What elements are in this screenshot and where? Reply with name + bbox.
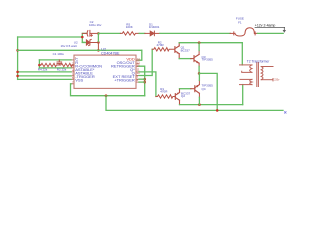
wire bottom feed up to transformer	[242, 85, 244, 105]
wire right cap rail vertical	[97, 33, 99, 42]
wire Q1 emitter to Q3 base	[179, 58, 191, 60]
wire VDD feed horizontal y50.3	[18, 49, 142, 51]
diode D1 1N4001	[145, 31, 160, 36]
svg-text:CD4047BE: CD4047BE	[101, 52, 120, 56]
node pin8 dot	[143, 81, 146, 84]
wire VDD feed down to pin14	[137, 50, 142, 60]
capacitor C2	[82, 30, 98, 36]
svg-text:470R: 470R	[157, 43, 165, 47]
transistor Q2 BC337	[175, 89, 179, 105]
secondary bottom lead	[261, 79, 273, 81]
svg-text:470R: 470R	[160, 90, 168, 94]
wire emitters to ground drop	[199, 73, 217, 110]
transistor Q3 TIP3055	[191, 43, 199, 74]
node B dot	[97, 32, 100, 35]
port 0v marker	[285, 112, 287, 114]
capacitor C1	[57, 60, 62, 65]
IC right pin leads	[136, 60, 139, 82]
wire pin8 +TRIGGER	[139, 81, 145, 83]
wire Q2 emitter to Q4 base	[180, 88, 191, 90]
node Q3 collector dot	[198, 41, 201, 44]
resistor R2 22k	[58, 63, 74, 66]
svg-text:C1 100u: C1 100u	[53, 52, 65, 56]
resistor R5 100K	[120, 32, 139, 35]
primary bottom lead	[240, 84, 253, 86]
resistor R1 470R lower	[156, 95, 175, 98]
wire diode to fuse	[160, 32, 230, 34]
node A dot	[81, 36, 84, 39]
wire between resistor and diode	[139, 32, 145, 34]
svg-text:VSS: VSS	[75, 78, 83, 83]
svg-text:Q4: Q4	[202, 87, 206, 91]
svg-text:230v: 230v	[274, 78, 280, 81]
wire left rail vertical	[17, 37, 19, 79]
svg-text:F1: F1	[238, 20, 242, 24]
wire pin4 ASTABLE* horizontal	[18, 71, 71, 73]
node pin9 dot	[143, 78, 146, 81]
wire ground drop x106	[106, 96, 283, 111]
transformer T2	[240, 63, 274, 87]
wire fuse to +12v port	[258, 32, 284, 34]
IC right pin labels	[111, 57, 135, 83]
wire pin3 R-C/COMMON horizontal	[39, 67, 71, 69]
svg-text:100u 16v: 100u 16v	[89, 23, 102, 27]
IC right pin numbers	[137, 57, 141, 82]
svg-text:1N4001: 1N4001	[149, 25, 160, 29]
node rail pin4 dot	[16, 71, 19, 74]
wire pin11 Q* to lower driver	[139, 72, 156, 97]
wire pin9 EXT RESET	[139, 78, 145, 80]
secondary winding	[261, 67, 263, 80]
svg-text:BC337: BC337	[181, 48, 191, 52]
IC left pin leads	[71, 60, 74, 84]
wire pin5 ASTABLE horizontal	[18, 75, 71, 77]
svg-text:+TRIGGER: +TRIGGER	[114, 78, 135, 83]
node emitters dot	[198, 72, 201, 75]
zener diode D2	[82, 39, 98, 45]
secondary top lead	[261, 66, 273, 68]
wire pin6 -TRIGGER horizontal	[18, 78, 71, 80]
node below IC dot	[105, 94, 108, 97]
svg-text:Q2: Q2	[181, 94, 185, 98]
wire cap branch up	[82, 33, 86, 37]
transistor Q1 BC337	[175, 43, 179, 59]
resistor R2 470R upper	[152, 48, 175, 51]
wire top-left horizontal to cap node	[18, 36, 83, 38]
svg-text:R2 22k: R2 22k	[57, 68, 67, 72]
wire Q1 collector top y42.3	[179, 42, 242, 44]
wire pin1 C horizontal	[39, 59, 71, 61]
svg-text:R4 22k: R4 22k	[38, 68, 48, 72]
svg-text:TIP3055: TIP3055	[202, 58, 214, 62]
svg-text:16v 0.5 watt: 16v 0.5 watt	[61, 44, 77, 48]
svg-text:T2 Transformer: T2 Transformer	[247, 60, 270, 64]
primary winding upper	[250, 65, 252, 73]
node D dot on VDD wire	[97, 49, 100, 52]
node ground dot	[216, 109, 219, 112]
primary winding lower	[250, 79, 252, 84]
wire pin10 Q to upper driver	[139, 49, 152, 75]
resistor R4 22k	[39, 63, 57, 66]
IC U2 CD4047BE box	[74, 55, 136, 88]
wire Q2 collector bottom y104.6	[180, 104, 243, 106]
primary center lead lower	[240, 78, 252, 80]
IC left pin numbers	[72, 56, 77, 85]
transistor Q4 TIP3055	[191, 73, 200, 104]
svg-text:100K: 100K	[126, 25, 133, 29]
wire pin7 VSS drop	[71, 84, 145, 96]
primary center lead upper	[242, 71, 252, 72]
wire left RC vertical	[38, 60, 40, 68]
wire zener branch down	[82, 37, 84, 42]
IC left pin labels	[75, 57, 102, 83]
node Q4 collector dot	[198, 103, 201, 106]
node rail pin5 dot	[16, 75, 19, 78]
wire main top y33.4 from node B to resistor	[98, 32, 120, 34]
node C dot	[97, 41, 100, 44]
core lines	[256, 63, 258, 87]
node rail dot on VDD wire	[16, 49, 19, 52]
wire pin12 RETRIGGER to right rail	[139, 66, 145, 96]
fuse F1	[230, 28, 257, 36]
node RC dot	[38, 64, 41, 67]
port +12v 2-4amp	[255, 24, 286, 33]
primary top lead	[240, 64, 253, 66]
wire top feed down to transformer	[241, 43, 243, 65]
